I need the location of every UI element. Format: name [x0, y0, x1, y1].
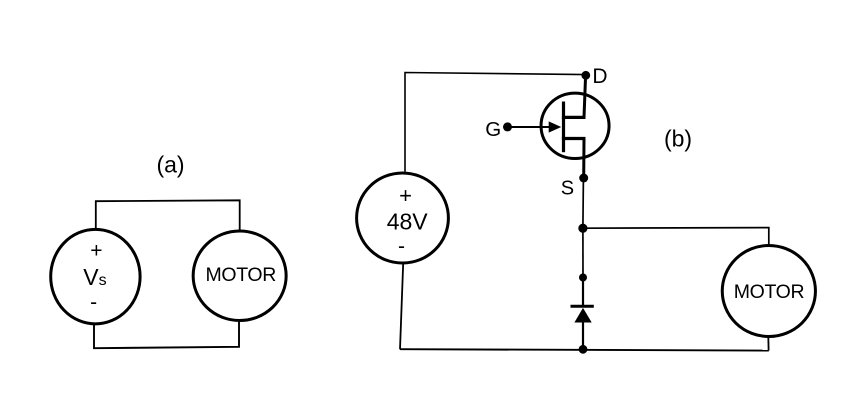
wire motor to bottom rail	[767, 336, 769, 351]
svg-text:+: +	[90, 239, 102, 262]
wire branch to motor	[583, 228, 769, 247]
MOSFET source bar	[562, 137, 586, 140]
MOSFET gate bar	[562, 102, 565, 153]
junction node	[578, 224, 587, 233]
svg-text:D: D	[592, 65, 607, 88]
svg-text:Vs: Vs	[83, 264, 106, 290]
svg-text:(a): (a)	[156, 152, 184, 178]
voltage source Vs	[51, 229, 140, 324]
wire junction to diode node	[582, 228, 584, 278]
diode D1 cathode bar	[571, 305, 594, 308]
MOSFET drain lead	[584, 75, 586, 117]
gate arrowhead	[549, 121, 562, 132]
svg-text:-: -	[90, 291, 97, 314]
wire top rail (a)	[96, 200, 240, 231]
wire bottom rail (a)	[94, 320, 239, 348]
svg-text:-: -	[398, 235, 405, 258]
diode D1 triangle	[574, 308, 591, 323]
MOSFET drain bar	[562, 116, 586, 119]
wire left side lower (b)	[400, 263, 403, 349]
wire bottom rail (b)	[400, 349, 769, 350]
svg-text:G: G	[485, 118, 501, 141]
MOSFET Q1 body	[541, 93, 609, 158]
svg-text:48V: 48V	[387, 209, 429, 235]
wire S to junction	[582, 178, 585, 228]
junction bottom	[579, 345, 588, 354]
svg-text:(b): (b)	[664, 126, 692, 152]
node S	[579, 174, 588, 183]
node G dot	[503, 122, 512, 131]
wire gate lead	[508, 126, 552, 128]
wire top rail (b)	[405, 73, 586, 172]
svg-text:S: S	[561, 177, 574, 199]
wire diode anode to bottom	[582, 322, 584, 349]
svg-text:MOTOR: MOTOR	[734, 281, 805, 303]
svg-text:MOTOR: MOTOR	[206, 264, 277, 286]
svg-text:+: +	[399, 183, 412, 208]
MOSFET source lead	[582, 139, 585, 179]
wire to diode cathode	[582, 278, 584, 307]
motor M2	[722, 246, 815, 337]
junction above diode	[579, 274, 587, 282]
node D	[581, 71, 590, 80]
voltage source 48V	[357, 173, 449, 263]
motor M1	[193, 231, 286, 321]
